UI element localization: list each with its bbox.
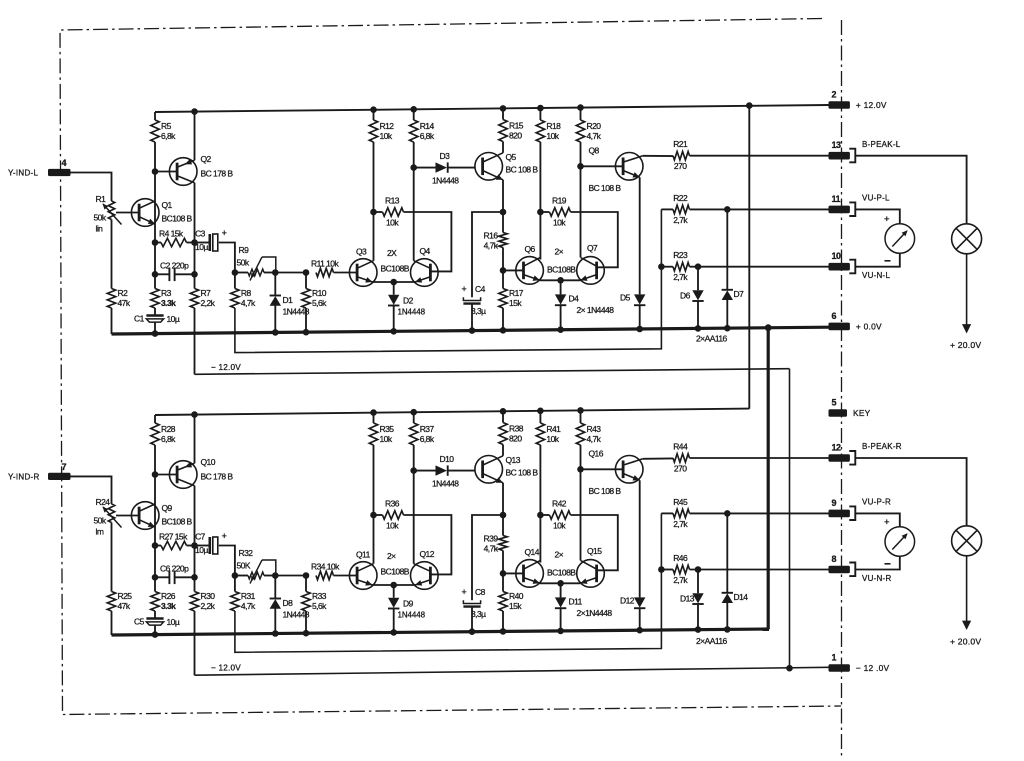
wire R12 to R13 node (373, 445, 375, 515)
svg-text:47k: 47k (118, 601, 131, 611)
resistor R27 15k (159, 532, 188, 550)
svg-text:R38: R38 (509, 424, 524, 434)
wire Q2 emitter to +12 rail (194, 112, 196, 161)
transistor Q15 (577, 546, 605, 587)
svg-text:12: 12 (832, 443, 841, 453)
svg-text:1N4448: 1N4448 (398, 308, 426, 317)
transistor Q5 (475, 152, 538, 180)
node R23 / D6 (695, 566, 702, 573)
wire D3 to Q5 base (448, 470, 475, 472)
svg-text:BC 108 B: BC 108 B (589, 183, 622, 193)
meter VU (right) (884, 517, 915, 564)
wire to R4 (155, 545, 161, 547)
connector pin 2 + 12.0V (829, 90, 887, 111)
svg-text:C1: C1 (134, 314, 145, 324)
svg-text:D13: D13 (680, 594, 695, 604)
capacitor C5 10µ (electrolytic) (134, 617, 180, 628)
svg-text:C6 220p: C6 220p (160, 563, 189, 573)
node 0V rail / C1 (152, 330, 159, 337)
wire column to R23 (661, 266, 673, 268)
wire R16 to Q6 base node (502, 551, 504, 574)
diode D6 (692, 290, 703, 301)
svg-text:Q11: Q11 (356, 550, 371, 560)
wire R5 to Q2 base node (154, 445, 156, 475)
resistor R44 270 (673, 442, 690, 474)
wire to D3 (414, 470, 436, 472)
svg-text:R26: R26 (161, 591, 176, 601)
wire D2 to 0V rail (393, 305, 395, 332)
resistor R36 10k (383, 499, 404, 531)
node R9 left / R8 (232, 572, 239, 579)
svg-text:BC108 B: BC108 B (162, 214, 193, 224)
svg-text:2X: 2X (387, 248, 397, 258)
wire to R19 (540, 514, 549, 516)
wire D5 to 0V rail (639, 304, 641, 329)
resistor R10 5,6k (302, 288, 327, 308)
node R9 right / D8 (272, 572, 279, 579)
wire R7 through 0V rail to -12V line (194, 611, 196, 675)
wire to R7 (194, 274, 196, 288)
transistor Q7 (577, 243, 605, 284)
capacitor C3 10µ (electrolytic) (195, 228, 227, 252)
svg-text:2×1N4448: 2×1N4448 (577, 608, 613, 618)
wire node to Q6 collector (539, 212, 541, 260)
node R4 left (152, 542, 159, 549)
svg-text:50k: 50k (237, 258, 250, 268)
svg-text:D8: D8 (283, 598, 294, 608)
wire R16 to Q6 base node (502, 248, 504, 271)
wire R7 through 0V rail to -12V line (194, 308, 196, 374)
svg-text:820: 820 (509, 131, 522, 141)
svg-text:Q15: Q15 (587, 546, 602, 556)
resistor R7 2,2k (190, 288, 215, 308)
wire node to R10 (305, 273, 307, 289)
diode D4 (555, 294, 566, 305)
node +12 rail / R12 (370, 409, 377, 416)
resistor R35 10k (369, 423, 394, 445)
svg-text:D3: D3 (440, 151, 451, 161)
potentiometer R24 50k (94, 497, 122, 537)
diode D7 (722, 290, 733, 300)
wire rail to R12 (373, 413, 375, 423)
wire D5 to 0V rail (639, 607, 641, 630)
node R16 / R17 / Q6 base (500, 570, 507, 577)
svg-text:R45: R45 (673, 497, 688, 507)
wire node to D6 (697, 267, 699, 291)
resistor R45 2,7k (673, 497, 690, 529)
wire R21 to pin 12 (690, 457, 829, 459)
svg-text:R18: R18 (546, 121, 561, 131)
wire R22 to pin 9 (690, 512, 829, 514)
resistor R25 47k (107, 591, 132, 611)
resistor R3 3.3k (151, 288, 176, 308)
node 0V rail / D1 (272, 630, 279, 637)
svg-text:50K: 50K (237, 561, 251, 571)
svg-text:C8: C8 (475, 587, 486, 597)
svg-text:10µ: 10µ (195, 242, 208, 252)
wire R11 to Q3 base (334, 272, 358, 274)
wire R20 down (580, 445, 582, 469)
svg-text:D7: D7 (734, 289, 745, 299)
potentiometer R9 50k (237, 245, 276, 281)
wire R9 wiper node (264, 575, 275, 577)
svg-text:2×AA116: 2×AA116 (696, 334, 728, 344)
svg-text:R40: R40 (509, 591, 524, 601)
connector pin 11 VU-P-L (829, 194, 891, 216)
node +12 rail / R18 (537, 105, 544, 112)
node 0V rail / D5 (636, 326, 643, 333)
wire node to Q8 base (581, 165, 624, 167)
svg-text:BC108B: BC108B (381, 264, 410, 274)
svg-text:BC108B: BC108B (547, 264, 576, 274)
svg-text:Y-IND-L: Y-IND-L (8, 169, 39, 178)
resistor R18 10k (536, 120, 561, 142)
wire to D3 (414, 167, 436, 169)
wire column to R22 (661, 208, 673, 210)
transistor Q3 (349, 247, 377, 287)
wire D3 to Q5 base (448, 167, 475, 169)
wire node to C3 (195, 545, 210, 547)
wire R19 to Q7 base (571, 212, 618, 267)
diode D3 (432, 151, 459, 186)
svg-text:15k: 15k (509, 601, 522, 611)
transistor Q13 (475, 455, 538, 483)
diode D5 (634, 294, 645, 305)
node 0V rail / D6 (695, 626, 702, 633)
node R22 / D7 (724, 206, 731, 213)
resistor R43 4,7k (576, 423, 601, 445)
wire input Y-IND-L to pot (71, 173, 112, 202)
wire 0V rail (left) (112, 327, 829, 334)
wire node to C3 (195, 242, 210, 244)
node R20 / Q8 base (577, 163, 584, 170)
node R23 left (658, 566, 665, 573)
node C2 right (191, 574, 198, 581)
node +12 rail / Q2 (191, 108, 198, 115)
wire node to Q4 collector (413, 471, 415, 564)
svg-text:50k: 50k (94, 213, 107, 223)
node 0V rail / D2 (390, 328, 397, 335)
wire node to D7 (726, 209, 728, 289)
wire rail to R12 (373, 110, 375, 120)
wire R2 to 0V rail (111, 308, 113, 334)
wire rail to R18 (539, 411, 541, 423)
node R14 / D3 anode (410, 467, 417, 474)
wire D6 to 0V rail (697, 301, 699, 329)
svg-text:R23: R23 (673, 250, 688, 260)
node R22 / D7 (724, 510, 731, 517)
node Q5 emitter / C4 / R16 (500, 209, 507, 216)
diode D14 (722, 593, 733, 603)
node R18 / R19 (537, 209, 544, 216)
svg-text:10k: 10k (553, 218, 566, 228)
svg-text:KEY: KEY (853, 408, 871, 418)
transistor Q11 (349, 550, 377, 590)
wire rail to R14 (413, 109, 415, 120)
wire to D2 (393, 585, 395, 598)
node R18 / R19 (537, 512, 544, 519)
wire +12 rail to R5 (154, 415, 156, 423)
node +12 rail / R20 (577, 104, 584, 111)
node -12V lines join (786, 665, 793, 672)
svg-text:10k: 10k (386, 521, 399, 531)
svg-text:D5: D5 (620, 293, 631, 303)
diode D9 (388, 598, 414, 609)
resistor R46 2,7k (673, 553, 690, 585)
svg-text:− 12.0V: − 12.0V (211, 363, 241, 372)
svg-text:D11: D11 (569, 597, 583, 607)
node R10 / R11 (303, 269, 310, 276)
wire C3 to R9 node (219, 546, 235, 576)
svg-text:VU-P-L: VU-P-L (862, 194, 890, 203)
svg-text:R36: R36 (385, 499, 400, 509)
svg-text:+: + (222, 228, 227, 238)
svg-text:10k: 10k (386, 218, 399, 228)
svg-text:R25: R25 (118, 591, 133, 601)
wire node to Q2 base (155, 474, 177, 476)
wire to C2 (155, 576, 169, 578)
wire C4 to 0V rail (471, 607, 473, 632)
resistor R11 10k (311, 259, 339, 277)
svg-text:9: 9 (832, 498, 837, 508)
wire R15 to Q5 collector (502, 142, 504, 153)
svg-text:B-PEAK-R: B-PEAK-R (862, 442, 902, 451)
wire lamp to +20V arrow (966, 556, 968, 622)
svg-text:Q6: Q6 (525, 244, 536, 254)
diode D2 (388, 295, 414, 306)
resistor R28 6,8k (151, 423, 176, 445)
diode D12 (634, 597, 645, 608)
svg-text:VU-N-R: VU-N-R (862, 574, 892, 583)
wire rail to R18 (539, 108, 541, 120)
svg-text:7: 7 (62, 462, 67, 472)
svg-text:1N4448: 1N4448 (432, 176, 459, 186)
svg-text:lm: lm (96, 527, 104, 537)
resistor R41 10k (536, 423, 561, 445)
node Q2 base / R5 (152, 168, 159, 175)
resistor R42 10k (550, 499, 571, 531)
resistor R16 4,7k (484, 231, 508, 251)
svg-text:R9: R9 (239, 245, 250, 255)
wire R8 bottom bias link line (235, 209, 662, 352)
svg-text:10k: 10k (380, 434, 393, 444)
svg-text:Q14: Q14 (525, 547, 540, 557)
transistor Q16 (589, 449, 644, 497)
wire to D4 (560, 280, 562, 294)
node R12 / R13 (370, 512, 377, 519)
wire C1 to 0V rail (154, 625, 156, 634)
wire node to Q7 collector (580, 166, 582, 257)
meter VU (left) (884, 214, 915, 261)
resistor R23 2,7k (673, 250, 690, 282)
svg-text:2,7k: 2,7k (673, 575, 688, 585)
wire node to R9 (235, 575, 248, 577)
svg-text:BC108B: BC108B (381, 567, 410, 577)
resistor R34 10k (311, 562, 340, 580)
connector pin 6 + 0.0V (829, 311, 883, 332)
wire R13 to Q4 base (404, 212, 452, 271)
node 0V rail / C4 (469, 628, 476, 635)
connector pin 12 B-PEAK-R (829, 442, 902, 464)
wire R8 bottom bias link line (235, 513, 662, 652)
svg-text:R41: R41 (546, 424, 561, 434)
capacitor C1 10µ (electrolytic) (134, 314, 180, 325)
svg-text:4: 4 (62, 158, 67, 168)
wire rail to R15 (502, 411, 504, 422)
wire node to Q8 base (581, 468, 624, 470)
wire R21 to pin 13 (690, 155, 829, 157)
wire column B (194, 243, 196, 275)
svg-text:4,7k: 4,7k (484, 544, 499, 554)
svg-text:Q10: Q10 (201, 457, 216, 467)
wire R12 to R13 node (373, 142, 375, 212)
svg-text:BC 108 B: BC 108 B (589, 486, 622, 496)
svg-text:Q7: Q7 (587, 243, 598, 253)
node R9 left / R8 (232, 269, 239, 276)
connector pin 4 input Y-IND-L (8, 158, 71, 178)
svg-text:10µ: 10µ (195, 545, 208, 555)
wire pin to meter + (855, 209, 900, 223)
svg-text:R46: R46 (673, 553, 688, 563)
svg-text:1: 1 (832, 653, 837, 663)
transistor Q10 (169, 457, 233, 488)
wire C3 to R9 node (219, 243, 235, 273)
wire column A (154, 546, 156, 578)
svg-text:R4 15k: R4 15k (159, 229, 184, 239)
wire R17 to 0V rail (502, 308, 504, 330)
node R4 left (152, 239, 159, 246)
svg-text:2×: 2× (555, 247, 564, 257)
resistor R19 10k (550, 196, 571, 228)
capacitor C8 3,3µ (electrolytic) (462, 587, 487, 619)
svg-text:C4: C4 (475, 284, 486, 294)
svg-text:4,7k: 4,7k (241, 601, 256, 611)
wire D2 to 0V rail (393, 608, 395, 633)
wire Q8 collector to R21 (643, 457, 673, 459)
wire Q3/Q4 emitters (373, 584, 416, 586)
wire D4 to 0V rail (560, 304, 562, 329)
wire Q6/Q7 emitters (540, 582, 581, 584)
node 0V rail / D4 (557, 326, 564, 333)
svg-text:BC 178 B: BC 178 B (201, 472, 234, 482)
capacitor C4 3,3µ (electrolytic) (462, 284, 487, 316)
node C2 left (152, 574, 159, 581)
node +12 rail / R14 (410, 106, 417, 113)
svg-text:+: + (462, 587, 467, 597)
capacitor C7 10µ (electrolytic) (195, 531, 227, 555)
svg-text:4,7k: 4,7k (484, 241, 499, 251)
resistor R31 4,7k (231, 591, 256, 611)
lamp peak indicator (right) (952, 526, 982, 556)
svg-text:6,8k: 6,8k (161, 131, 176, 141)
wire 0V trunk top rail to bottom rail (767, 328, 770, 630)
wire -12V drop to pin 1 line (789, 369, 791, 669)
wire Q6/Q7 emitters (540, 279, 581, 281)
svg-text:10k: 10k (546, 131, 559, 141)
wire +12V trunk top rail to bottom rail (748, 106, 750, 409)
svg-text:D14: D14 (734, 592, 749, 602)
svg-text:Q5: Q5 (506, 152, 517, 162)
svg-text:D2: D2 (403, 296, 414, 306)
resistor R22 2,7k (673, 193, 690, 225)
connector pin 1 − 12 .0V (829, 653, 890, 674)
svg-text:R39: R39 (484, 534, 499, 544)
wire +12V rail (right) (155, 409, 749, 415)
node 0V rail / R10 (303, 630, 310, 637)
svg-text:R17: R17 (509, 288, 524, 298)
svg-text:R32: R32 (239, 548, 254, 558)
node 0V rail / C1 (152, 631, 159, 638)
wire D5 to Q8 emitter (639, 480, 641, 597)
svg-text:270: 270 (674, 161, 687, 171)
diode D10 (432, 454, 459, 489)
svg-text:2,7k: 2,7k (673, 272, 688, 282)
wire to R3 (154, 577, 156, 591)
resistor R2 47k (107, 288, 131, 308)
svg-text:15k: 15k (509, 298, 522, 308)
wire to R10 node (275, 575, 306, 577)
svg-text:6,8k: 6,8k (420, 131, 435, 141)
wire node to R16 (502, 515, 504, 536)
capacitor C2 220p (160, 260, 189, 281)
svg-text:R13: R13 (385, 196, 400, 206)
wire node down to R4 node (Q1 collector/emitter column) (154, 475, 156, 546)
node R20 / Q8 base (577, 466, 584, 473)
svg-text:2: 2 (832, 90, 837, 100)
connector pin 13 B-PEAK-L (829, 140, 901, 162)
wire node down to R4 node (Q1 collector/emitter column) (154, 172, 156, 243)
svg-text:10: 10 (832, 251, 841, 261)
wire to R4 (155, 242, 161, 244)
wire Q8 collector to R21 (643, 155, 673, 157)
svg-text:2×: 2× (555, 550, 564, 560)
wire D5 to Q8 emitter (639, 177, 641, 294)
wire node to D7 (726, 513, 728, 592)
resistor R8 4,7k (231, 288, 256, 308)
transistor Q2 (169, 154, 233, 185)
wire lamp to +20V arrow (966, 254, 968, 326)
wire R3 to C1 (154, 308, 156, 316)
svg-text:R24: R24 (96, 497, 111, 507)
wire R19 to Q7 base (571, 515, 618, 570)
svg-text:R34 10k: R34 10k (311, 562, 340, 572)
wire node to Q6 collector (539, 515, 541, 563)
wire node to Q6 base (503, 572, 524, 574)
node +12 rail / R12 (370, 106, 377, 113)
svg-text:R33: R33 (312, 591, 327, 601)
svg-text:Y-IND-R: Y-IND-R (8, 473, 40, 482)
svg-text:C5: C5 (134, 617, 145, 627)
wire C2 to node (175, 576, 195, 578)
transistor Q4 (411, 246, 439, 286)
svg-text:R14: R14 (420, 121, 435, 131)
wire rail to R15 (502, 108, 504, 119)
wire column to R22 (661, 512, 673, 514)
node +12 rail / R15 (500, 408, 507, 415)
svg-text:5: 5 (832, 398, 837, 408)
svg-text:4,7k: 4,7k (587, 434, 602, 444)
wire D7 to 0V rail (726, 299, 728, 328)
wire D7 to 0V rail (726, 602, 728, 629)
diode D11 (555, 597, 566, 608)
node 0V rail / D2 (390, 629, 397, 636)
resistor R15 820 (499, 120, 524, 142)
wire meter - to pin (855, 556, 900, 569)
node emitters / D2 (390, 582, 397, 589)
wire node to R10 (305, 576, 307, 592)
svg-text:+: + (222, 531, 227, 541)
wire meter - to pin (855, 253, 900, 266)
